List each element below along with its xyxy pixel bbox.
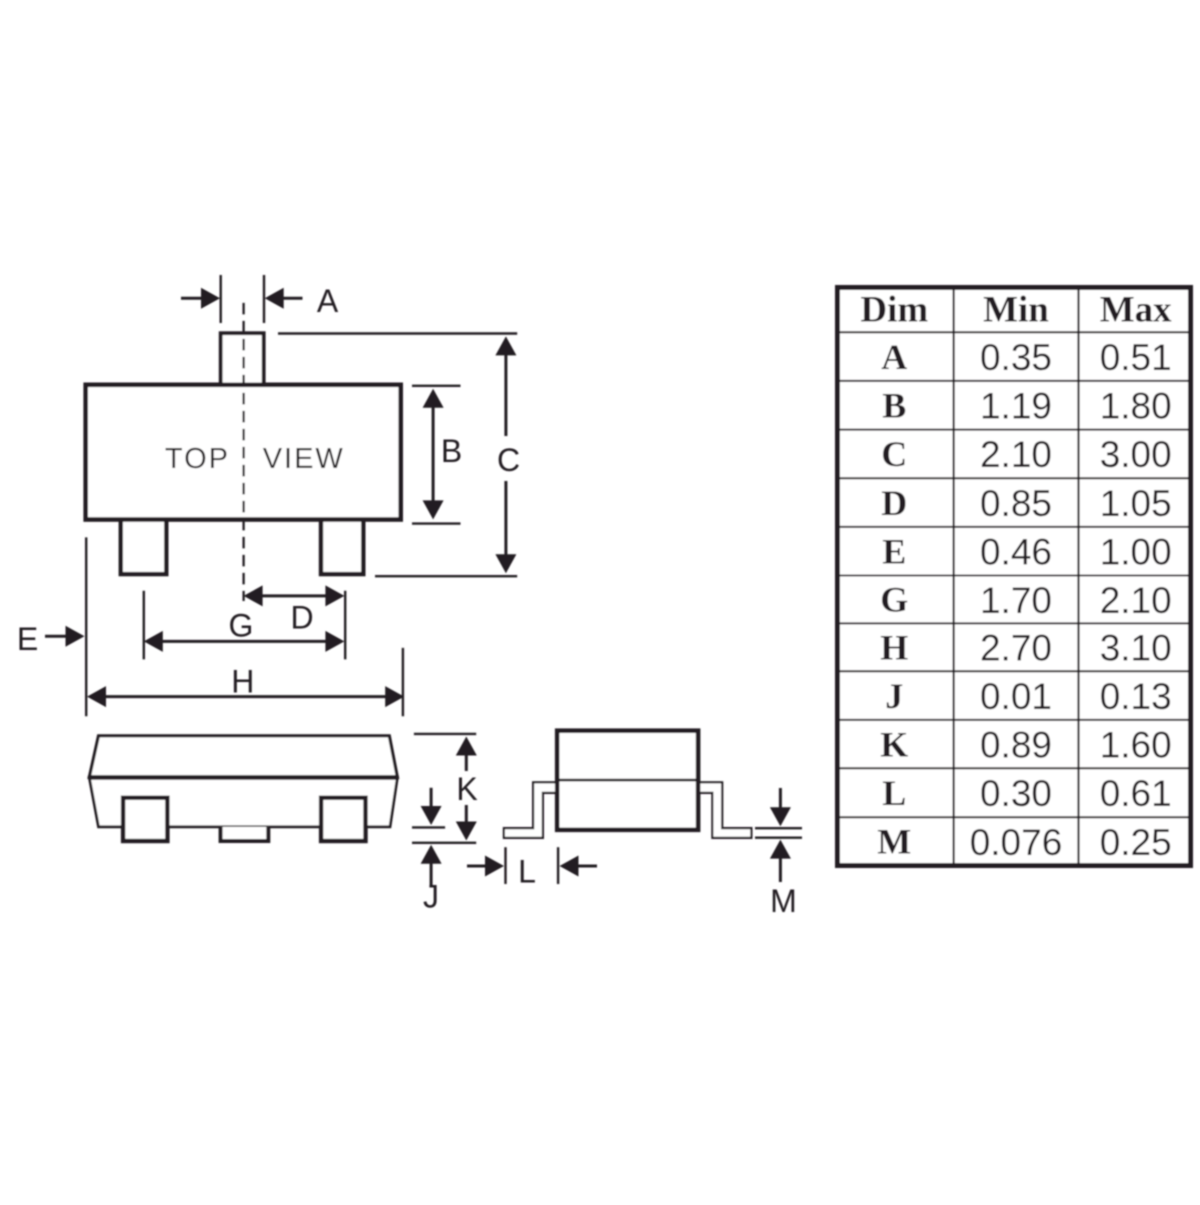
dim H extension tick left — [85, 537, 87, 716]
top view: package body — [86, 385, 401, 520]
svg-text:K: K — [456, 771, 477, 807]
dim K / J shared seating line — [412, 842, 476, 844]
svg-text:0.01: 0.01 — [980, 676, 1052, 717]
svg-text:C: C — [881, 434, 907, 474]
dim K extension line top — [414, 733, 476, 735]
svg-text:C: C — [497, 442, 520, 478]
side view: left gull-wing lead — [504, 782, 558, 838]
top view: pin 3 (top tab) — [221, 333, 264, 388]
svg-text:0.35: 0.35 — [980, 337, 1052, 378]
dim B arrow line — [432, 400, 435, 508]
front view: body upper half — [89, 736, 397, 778]
dim J up arrow — [430, 862, 433, 885]
dimension table: column divider 2 — [1077, 286, 1079, 866]
dim M up arrow — [779, 857, 782, 882]
svg-text:0.13: 0.13 — [1100, 676, 1172, 717]
svg-text:2.10: 2.10 — [1100, 580, 1172, 621]
svg-text:L: L — [518, 853, 536, 889]
dim C arrow line — [504, 352, 507, 436]
svg-text:D: D — [881, 483, 907, 523]
dimension table: outer border — [838, 288, 1191, 866]
dim L extension tick right — [557, 847, 559, 884]
side view: parting line — [557, 779, 698, 782]
top view: pin 1 (bottom left) — [121, 515, 167, 574]
svg-text:A: A — [317, 283, 339, 319]
dim M down arrow — [779, 788, 782, 809]
dim D extension tick right — [344, 591, 346, 660]
svg-text:2.70: 2.70 — [980, 628, 1052, 669]
dimension table: header row — [860, 290, 1172, 331]
svg-text:K: K — [880, 724, 908, 764]
front view: parting line — [89, 775, 397, 780]
side view: right gull-wing lead — [698, 782, 752, 838]
svg-text:0.25: 0.25 — [1100, 822, 1172, 863]
dimension table: Min column values — [970, 337, 1063, 863]
svg-text:Min: Min — [983, 290, 1049, 331]
dim G extension tick left — [143, 591, 145, 660]
svg-text:3.00: 3.00 — [1100, 434, 1172, 475]
dimension table: Max column values — [1100, 337, 1172, 863]
svg-text:0.89: 0.89 — [980, 724, 1052, 765]
svg-text:E: E — [17, 621, 38, 657]
svg-text:2.10: 2.10 — [980, 434, 1052, 475]
dim J down arrow — [430, 788, 433, 808]
dim K arrow line — [465, 753, 468, 771]
dim M reference line top — [755, 827, 802, 829]
svg-text:1.70: 1.70 — [980, 580, 1052, 621]
svg-text:E: E — [882, 531, 906, 571]
svg-text:0.85: 0.85 — [980, 483, 1052, 524]
dim D arrow line — [261, 594, 327, 597]
svg-text:Max: Max — [1100, 290, 1172, 331]
dimension table: Dim column letters — [877, 337, 911, 862]
svg-text:VIEW: VIEW — [263, 443, 345, 475]
svg-text:0.30: 0.30 — [980, 773, 1052, 814]
dim A right arrow — [282, 297, 303, 300]
svg-text:B: B — [441, 433, 462, 469]
dim B extension line top — [412, 385, 461, 387]
svg-text:A: A — [881, 337, 907, 377]
svg-text:G: G — [229, 608, 254, 644]
svg-text:0.61: 0.61 — [1100, 773, 1172, 814]
side view: body — [557, 731, 698, 830]
top view: dashed centerline — [242, 303, 244, 601]
svg-text:1.05: 1.05 — [1100, 483, 1172, 524]
dim B extension line bottom — [412, 522, 461, 524]
dim H arrow line — [104, 695, 386, 698]
svg-text:0.51: 0.51 — [1100, 337, 1172, 378]
svg-text:0.46: 0.46 — [980, 532, 1052, 573]
svg-text:1.19: 1.19 — [980, 386, 1052, 427]
svg-text:M: M — [770, 883, 797, 919]
svg-text:TOP: TOP — [165, 443, 230, 475]
dim L right arrow — [577, 865, 598, 868]
svg-text:H: H — [880, 628, 908, 668]
dim H extension tick right — [402, 648, 404, 716]
front view: body lower half — [89, 777, 397, 826]
dim J upper reference line — [412, 826, 445, 828]
front view: center pin — [221, 827, 269, 841]
svg-text:0.076: 0.076 — [970, 822, 1063, 863]
dim L extension tick left — [504, 847, 506, 884]
svg-text:3.10: 3.10 — [1100, 628, 1172, 669]
svg-text:G: G — [880, 580, 908, 620]
dimension table: column divider 1 — [952, 286, 954, 866]
dim C extension line top — [278, 332, 517, 334]
svg-text:D: D — [290, 599, 313, 635]
svg-text:J: J — [885, 676, 903, 716]
svg-text:1.80: 1.80 — [1100, 386, 1172, 427]
dim G arrow line — [161, 640, 327, 643]
svg-text:H: H — [231, 664, 254, 700]
svg-text:M: M — [877, 822, 911, 862]
svg-text:1.00: 1.00 — [1100, 532, 1172, 573]
svg-text:J: J — [423, 878, 439, 914]
svg-text:L: L — [882, 773, 906, 813]
front view: right pin — [321, 798, 365, 841]
dim A left arrow — [181, 297, 203, 300]
svg-text:Dim: Dim — [860, 290, 928, 331]
dim L left arrow — [467, 865, 487, 868]
svg-text:B: B — [882, 385, 906, 425]
dim E arrow — [45, 635, 67, 638]
dim M reference line bottom — [755, 837, 802, 839]
top view: pin 2 (bottom right) — [321, 515, 363, 574]
dim A extension tick left — [219, 275, 221, 323]
dim C extension line bottom — [375, 575, 517, 577]
svg-text:1.60: 1.60 — [1100, 724, 1172, 765]
front view: left pin — [123, 798, 167, 841]
dimension table: row lines — [835, 332, 1193, 817]
dim A extension tick right — [263, 275, 265, 323]
